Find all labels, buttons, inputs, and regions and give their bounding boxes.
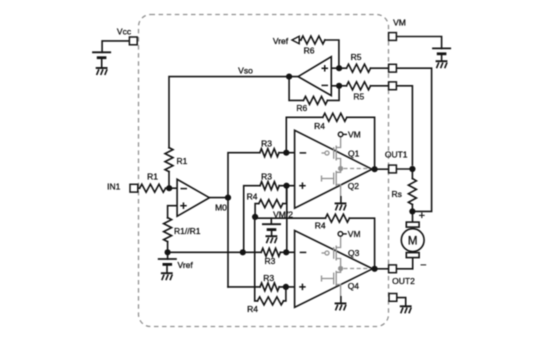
svg-text:Q4: Q4	[348, 281, 360, 291]
svg-text:VM: VM	[348, 229, 361, 239]
svg-text:VM/2: VM/2	[273, 209, 293, 219]
svg-text:R4: R4	[247, 304, 258, 314]
svg-text:OUT1: OUT1	[385, 150, 408, 160]
svg-text:R3: R3	[263, 273, 274, 283]
svg-text:R4: R4	[315, 221, 326, 231]
svg-text:R3: R3	[261, 139, 272, 149]
svg-text:R5: R5	[351, 52, 362, 62]
svg-text:Vref: Vref	[178, 260, 194, 270]
svg-text:R5: R5	[353, 92, 364, 102]
svg-text:R3: R3	[261, 171, 272, 181]
svg-text:Q2: Q2	[348, 181, 360, 191]
svg-text:R6: R6	[304, 45, 315, 55]
svg-text:R1: R1	[177, 156, 188, 166]
svg-text:Q1: Q1	[348, 148, 360, 158]
svg-text:IN1: IN1	[107, 182, 121, 192]
svg-text:−: −	[420, 260, 426, 272]
svg-text:+: +	[419, 210, 425, 222]
svg-text:R3: R3	[264, 256, 275, 266]
svg-text:Rs: Rs	[392, 189, 402, 199]
svg-text:R6: R6	[296, 103, 307, 113]
svg-text:M0: M0	[215, 203, 227, 213]
svg-text:Vref: Vref	[273, 36, 289, 46]
svg-text:VM: VM	[348, 129, 361, 139]
svg-text:OUT2: OUT2	[392, 276, 415, 286]
svg-text:Q3: Q3	[348, 248, 360, 258]
svg-text:Vcc: Vcc	[117, 27, 132, 37]
svg-text:Vso: Vso	[238, 66, 253, 76]
svg-text:VM: VM	[393, 18, 406, 28]
svg-text:M: M	[408, 235, 418, 247]
svg-text:R4: R4	[314, 121, 325, 131]
svg-text:R4: R4	[247, 192, 258, 202]
svg-text:R1: R1	[147, 172, 158, 182]
svg-text:R1//R1: R1//R1	[174, 226, 201, 236]
